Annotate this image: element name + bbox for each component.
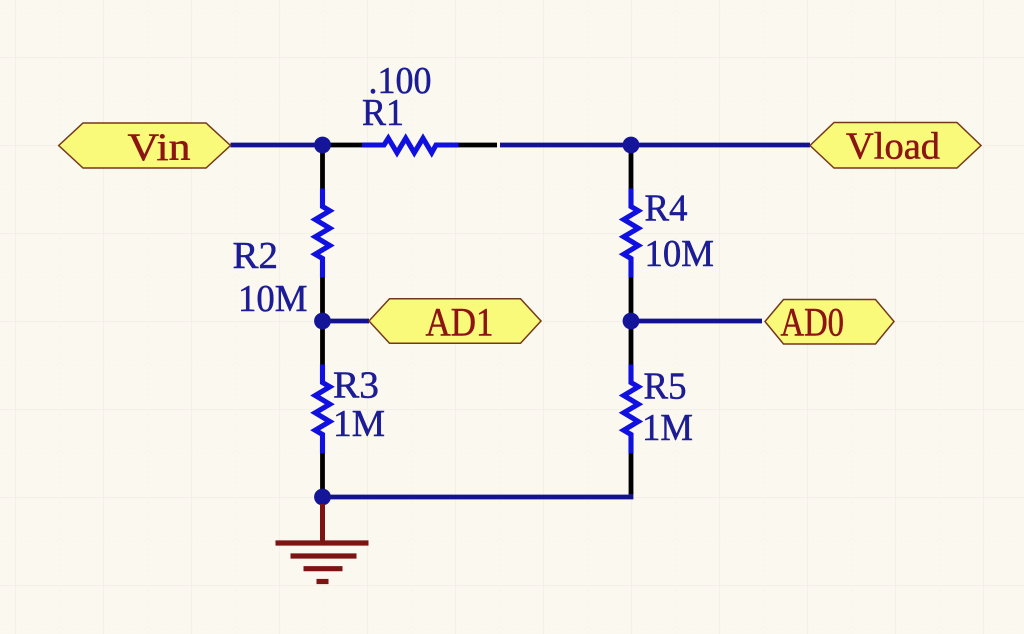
svg-text:AD0: AD0: [781, 299, 845, 344]
wire node B to Vload: [631, 143, 810, 148]
junction node B: [623, 137, 640, 154]
wire node A to node B (right of R1): [500, 143, 631, 148]
wire bottom bus D to right column: [323, 493, 632, 497]
svg-text:R5: R5: [644, 366, 687, 408]
resistor R5: [624, 321, 639, 494]
svg-text:1M: 1M: [333, 403, 385, 445]
junction node A: [314, 137, 331, 154]
svg-text:R1: R1: [362, 92, 404, 134]
junction node E: [623, 313, 640, 330]
ground: [276, 504, 369, 582]
svg-text:1M: 1M: [642, 407, 693, 449]
svg-text:Vload: Vload: [846, 126, 940, 168]
wire Vin to node A: [231, 143, 323, 148]
resistor R4: [624, 145, 639, 321]
port Vload: [810, 123, 981, 169]
svg-text:R2: R2: [233, 235, 279, 277]
svg-text:10M: 10M: [645, 233, 715, 275]
resistor R1: [323, 138, 498, 153]
svg-text:R3: R3: [333, 365, 379, 407]
svg-text:Vin: Vin: [128, 126, 191, 169]
port AD1: [369, 299, 541, 345]
port AD0: [765, 299, 894, 344]
wire node C to AD1: [323, 319, 370, 324]
port Vin: [59, 123, 231, 169]
svg-text:10M: 10M: [238, 278, 308, 320]
svg-text:R4: R4: [645, 188, 688, 230]
resistor R2: [315, 145, 330, 321]
junction node D: [314, 489, 331, 506]
junction node C: [314, 313, 331, 330]
wire node E to AD0: [631, 319, 762, 324]
resistor R3: [315, 321, 330, 497]
svg-text:AD1: AD1: [426, 300, 494, 345]
